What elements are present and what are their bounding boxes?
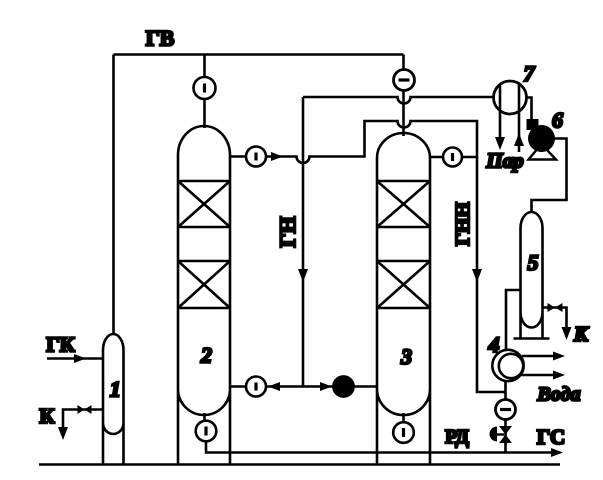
arrow: ГК flow right (74, 354, 86, 363)
arrow: ГН flow down (298, 269, 308, 282)
wire: condenser 7 outlet to pump 6 (527, 98, 532, 120)
column 3 packing bed upper (377, 181, 430, 227)
svg-text:4: 4 (488, 332, 500, 357)
exchanger 4 inner tube (499, 354, 523, 378)
pump 6 body (528, 125, 555, 152)
wire: vessel 5 side tap to exchanger 4 top (506, 290, 521, 351)
wire: steam tube down (499, 84, 502, 138)
svg-text:7: 7 (524, 61, 536, 86)
wire: column 3 bottom stub to sensor (402, 413, 405, 423)
svg-text:5: 5 (528, 250, 539, 275)
arrow: К drain down (right) (562, 327, 572, 340)
wire: reflux header between column 2 and column 3 (230, 385, 377, 388)
pump: reflux circulation pump (filled) (332, 375, 355, 398)
valve: vessel 1 drain valve (78, 405, 92, 414)
wire: vessel 1 drain through valve to К (63, 410, 103, 428)
wire: steam tube up (518, 84, 521, 152)
svg-text:Пар: Пар (485, 149, 523, 173)
column 3 shell (377, 133, 430, 465)
sensor: flow instrument on column 2 feed (194, 77, 216, 99)
sensor: flow instrument on reflux to column 2 (246, 377, 266, 397)
sensor: flow instrument under column 2 (196, 421, 217, 442)
wire: exchanger 4 water outlet lower (520, 374, 553, 377)
vessel 1 shell (103, 334, 124, 465)
arrow: column 2 overhead flow right (271, 152, 283, 161)
column 2 packing bed lower (178, 261, 230, 308)
vessel 5 shell (521, 212, 543, 339)
wire: exchanger 4 water outlet upper (522, 355, 553, 358)
arrow: steam out down (Пар) (495, 137, 505, 150)
column 2 packing bed upper (178, 181, 230, 227)
svg-text:К: К (39, 404, 55, 428)
svg-text:ГНН: ГНН (452, 202, 474, 246)
wire: vessel 5 drain through valve to К (543, 308, 567, 329)
svg-text:К: К (573, 322, 590, 346)
sensor: minus instrument on column 3 feed (394, 70, 415, 91)
svg-text:РД: РД (445, 426, 469, 448)
vessel 5 support base (514, 337, 550, 340)
svg-text:ГК: ГК (46, 333, 75, 357)
wire: ГВ header line (114, 53, 404, 56)
wire: left drop from ГВ header to vessel 1 top (112, 55, 115, 336)
sensor: flow instrument on column 2 overhead (246, 147, 266, 167)
svg-text:3: 3 (400, 344, 412, 369)
exchanger 4 outer shell (492, 350, 523, 381)
arrow: water out lower (553, 371, 565, 380)
wire: ГН vertical line (302, 97, 305, 387)
wire: drop from header through sensor into column 2 top (203, 55, 206, 129)
pump 6 base triangle (529, 144, 557, 160)
wire: column 2 bottom stub to sensor (203, 413, 206, 422)
valve: РД control valve (490, 426, 512, 443)
wire: ГК feed line into vessel 1 (47, 357, 103, 360)
arrow: reflux to column 2 (left) (268, 382, 280, 391)
wire: column 3 overhead through sensor to ГНН line (430, 156, 477, 159)
wire: pump 6 discharge to vessel 5 top (532, 139, 567, 214)
arrow: ГС flow right (551, 448, 563, 457)
wire: exchanger 4 bottom through minus-sensor and valve to РД line (504, 382, 507, 453)
svg-text:1: 1 (110, 377, 121, 402)
sensor: flow instrument under column 3 (393, 422, 414, 443)
arrow: steam in up (Пар) (514, 133, 524, 146)
wire: column 2 overhead to ГНН drop (dips at x=303 and x=404) (230, 121, 506, 392)
sensor: minus instrument above РД valve (496, 400, 516, 420)
arrow: reflux to column 3 (right) (320, 382, 332, 391)
condenser 7 shell (494, 81, 527, 114)
column 3 packing bed lower (377, 261, 430, 308)
arrow: К drain down (left) (58, 427, 68, 440)
svg-text:2: 2 (200, 343, 212, 368)
arrow: ГНН flow down (472, 269, 482, 282)
wire: РД product line to ГС (206, 441, 552, 453)
valve: vessel 5 drain valve (548, 303, 563, 312)
pump 6 inlet block (527, 119, 539, 130)
wire: line A from ГН riser to condenser 7 (dip at x=404) (303, 97, 494, 104)
svg-text:ГН: ГН (275, 216, 300, 247)
svg-text:Вода: Вода (537, 384, 581, 406)
svg-text:6: 6 (552, 108, 563, 133)
wire: drop from header through minus-sensor into column 3 top (402, 55, 405, 137)
svg-text:ГС: ГС (537, 425, 565, 449)
svg-text:ГВ: ГВ (146, 26, 175, 51)
column 2 shell (178, 126, 230, 465)
arrow: water out upper (553, 352, 565, 361)
wire: ground base line (39, 463, 560, 466)
sensor: flow instrument on column 3 overhead (443, 148, 462, 167)
